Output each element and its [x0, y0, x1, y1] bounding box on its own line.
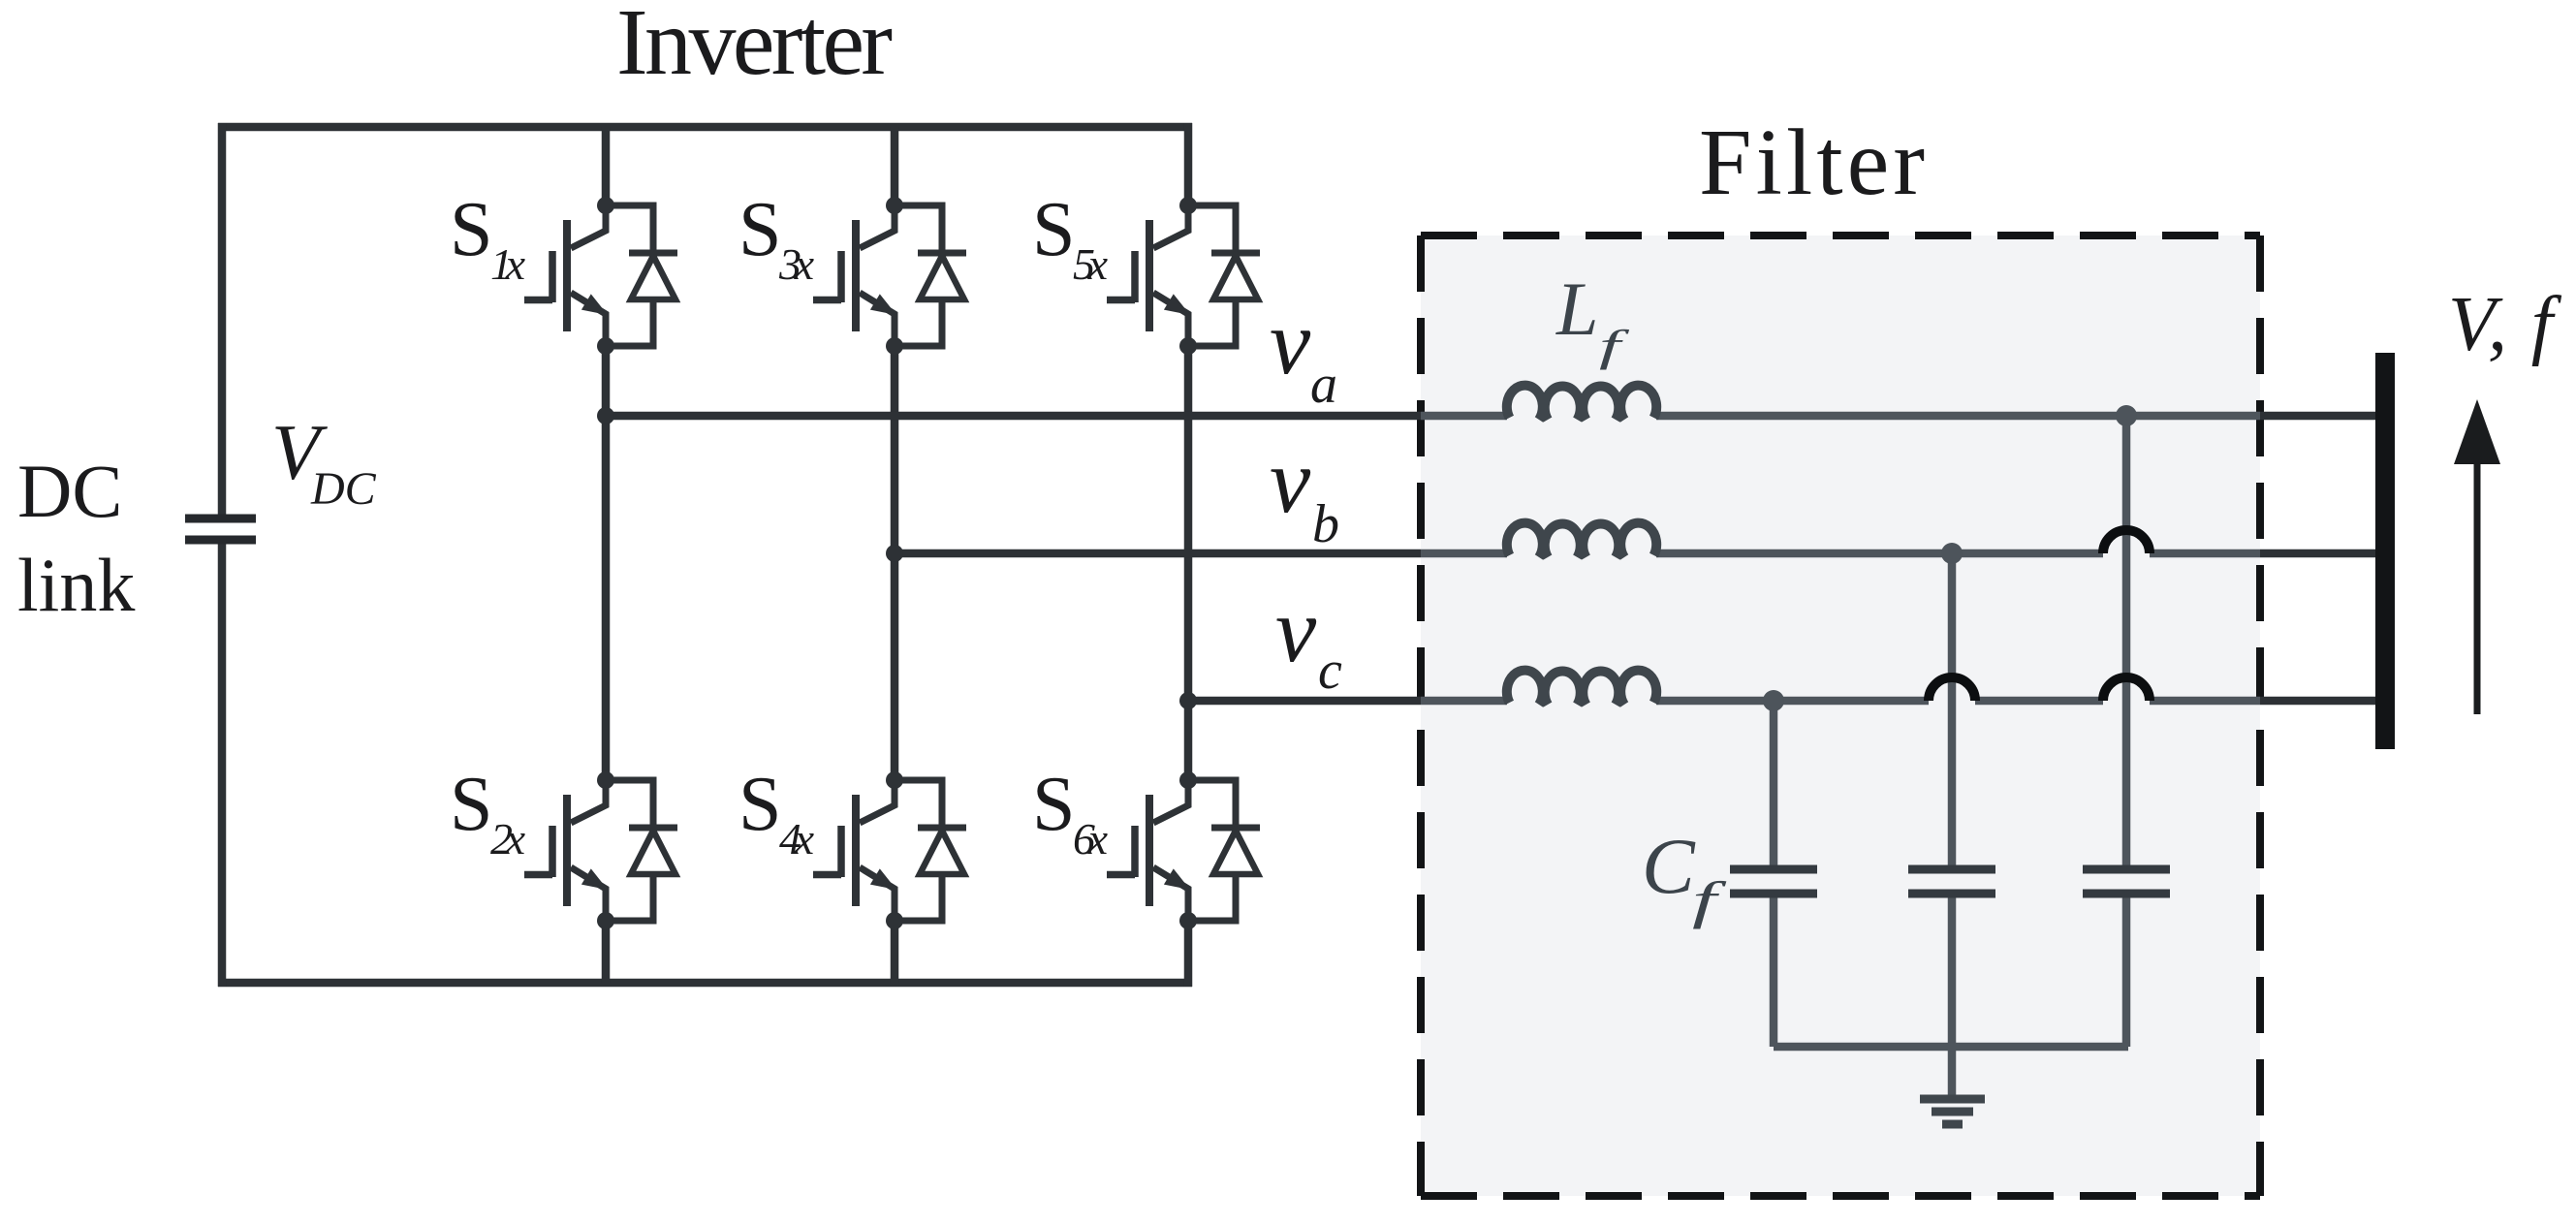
- svg-text:6x: 6x: [1073, 814, 1109, 864]
- svg-text:S: S: [450, 187, 493, 272]
- svg-text:b: b: [1312, 494, 1339, 554]
- svg-text:S: S: [738, 762, 782, 847]
- svg-text:v: v: [1270, 429, 1311, 532]
- svg-text:4x: 4x: [779, 814, 815, 864]
- svg-text:S: S: [1032, 762, 1076, 847]
- svg-text:S: S: [450, 762, 493, 847]
- svg-text:v: v: [1275, 579, 1317, 681]
- svg-text:V, f: V, f: [2448, 282, 2562, 367]
- svg-text:link: link: [17, 543, 135, 627]
- svg-text:a: a: [1310, 355, 1337, 415]
- svg-text:DC: DC: [310, 463, 377, 515]
- svg-text:5x: 5x: [1073, 239, 1109, 289]
- svg-text:v: v: [1270, 291, 1311, 393]
- svg-text:C: C: [1642, 822, 1696, 910]
- svg-text:S: S: [1032, 187, 1076, 272]
- svg-text:2x: 2x: [490, 814, 526, 864]
- svg-text:DC: DC: [17, 449, 122, 533]
- svg-text:S: S: [738, 187, 782, 272]
- svg-text:c: c: [1318, 641, 1342, 701]
- svg-text:1x: 1x: [490, 239, 526, 289]
- svg-text:L: L: [1555, 267, 1598, 351]
- svg-text:3x: 3x: [778, 239, 815, 289]
- svg-text:Inverter: Inverter: [616, 0, 893, 95]
